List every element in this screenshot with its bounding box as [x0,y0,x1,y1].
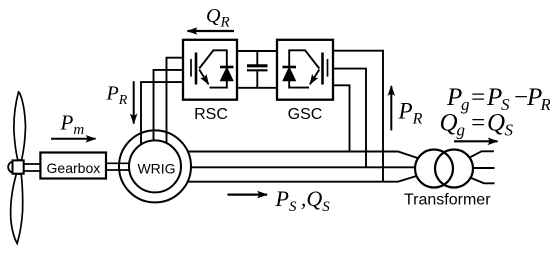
DC link top rail [237,50,277,52]
RSC diode triangle [221,68,234,81]
rotor wire c [141,82,183,144]
hub nose cone [8,162,13,173]
grid output wire top [470,151,494,157]
svg-text:RSC: RSC [194,106,228,123]
stator line bottom [188,176,417,182]
GSC diode triangle [283,68,296,81]
wind turbine upper blade [14,92,26,160]
shaft gearbox to WRIG [106,163,130,170]
WRIG inner circle [129,140,181,192]
GSC IGBT gate lead [327,59,329,77]
svg-text:Pm: Pm [60,110,85,138]
DC link bottom rail [237,87,277,89]
grid power arrow [454,140,498,142]
svg-text:PS ,QS: PS ,QS [275,186,331,215]
hub square [13,160,24,173]
svg-text:WRIG: WRIG [137,161,175,177]
RSC IGBT gate lead [190,59,192,77]
GSC output wire c [333,85,350,151]
GSC IGBT collector [289,50,319,68]
GSC diode cathode bar [283,66,297,69]
svg-text:Qg=QS: Qg=QS [440,110,514,140]
DC capacitor stem top [256,51,258,65]
grid output wire middle [474,167,495,169]
RSC IGBT gate bar [195,53,198,85]
Pm arrow [51,138,96,140]
GSC IGBT gate bar [321,53,324,85]
svg-text:Gearbox: Gearbox [47,160,101,176]
svg-text:GSC: GSC [288,106,323,123]
RSC diode cathode bar [220,66,234,69]
DC capacitor top plate [247,64,268,67]
rotor wire a [167,58,184,143]
RSC IGBT emitter with arrow [199,70,208,85]
RSC diode anode stem and bottom rail [210,81,227,88]
QR arrow [188,30,235,32]
PR right up arrow [390,86,392,130]
WRIG outer circle [119,130,191,202]
PS QS arrow [228,194,268,196]
stator line middle [191,166,414,168]
gearbox box [40,153,106,179]
grid output wire bottom [470,178,495,184]
RSC IGBT collector [199,50,227,68]
PR left down arrow [133,81,135,123]
GSC box [277,40,333,100]
transformer primary circle [415,150,453,188]
RSC box [183,40,237,100]
svg-text:QR: QR [206,5,230,31]
DC capacitor stem bottom [256,71,258,88]
GSC output wire b [333,69,366,168]
rotor wire b [154,70,184,140]
shaft hub to gearbox [24,164,41,171]
GSC diode anode stem and bottom rail [289,81,309,88]
transformer secondary circle [435,150,473,188]
svg-text:Transformer: Transformer [404,192,491,209]
stator line top [188,152,418,159]
DC capacitor bottom plate [247,69,268,71]
svg-text:PR: PR [398,99,423,128]
wind turbine lower blade [11,174,23,244]
svg-text:PR: PR [106,82,128,108]
GSC output wire a [333,51,383,182]
GSC IGBT emitter with arrow [310,70,319,85]
